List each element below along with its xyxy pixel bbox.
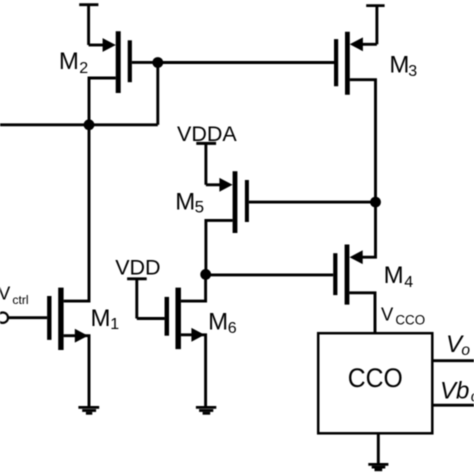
node B (M1 drain / M2 drain) bbox=[84, 119, 95, 130]
wire M4 gate to node C bbox=[206, 273, 334, 276]
svg-text:M: M bbox=[91, 305, 111, 332]
transistor M5 (PMOS) bbox=[206, 171, 247, 274]
svg-text:1: 1 bbox=[110, 316, 119, 333]
transistor M2 (PMOS) bbox=[89, 31, 158, 125]
node A (M2/M3 gate tie) bbox=[152, 57, 163, 68]
label Vo bbox=[446, 331, 470, 359]
ground symbol below M1 bbox=[78, 407, 99, 413]
label VCCO bbox=[381, 303, 425, 327]
svg-text:VDD: VDD bbox=[115, 255, 160, 279]
svg-text:5: 5 bbox=[195, 197, 204, 216]
wire M5 gate to node D bbox=[249, 201, 376, 204]
supply symbol (VDD bar) above M3 bbox=[366, 6, 384, 45]
label Vbo bbox=[440, 378, 474, 406]
transistor M3 (PMOS, mirrored) bbox=[336, 32, 377, 202]
svg-text:CCO: CCO bbox=[395, 313, 425, 328]
svg-text:V: V bbox=[381, 303, 394, 324]
svg-text:4: 4 bbox=[404, 274, 413, 291]
wire node A down to left rail bbox=[156, 63, 159, 125]
svg-text:V: V bbox=[0, 283, 11, 304]
label M6 bbox=[208, 309, 237, 338]
svg-text:o: o bbox=[461, 342, 470, 359]
wire output Vo bbox=[434, 359, 474, 362]
svg-text:M: M bbox=[384, 262, 404, 289]
svg-text:CCO: CCO bbox=[348, 363, 403, 393]
supply symbol (VDD bar) above M2 bbox=[79, 5, 98, 45]
supply symbol VDD bar (M6 gate) bbox=[127, 279, 147, 319]
transistor M6 (NMOS) bbox=[167, 274, 206, 407]
svg-text:2: 2 bbox=[79, 60, 88, 77]
wire output Vbo bbox=[434, 404, 474, 407]
svg-text:Vb: Vb bbox=[440, 378, 469, 405]
node C (M5 drain / M6 drain / M4 gate) bbox=[200, 269, 211, 280]
wire node A to M3 gate bbox=[158, 61, 334, 64]
supply symbol VDDA bar bbox=[196, 143, 216, 184]
wire VDD to M6 gate bbox=[137, 317, 165, 320]
svg-text:M: M bbox=[175, 188, 195, 215]
label M4 bbox=[384, 262, 414, 291]
label Vctrl bbox=[0, 283, 29, 308]
svg-text:M: M bbox=[59, 48, 79, 75]
ground symbol below M6 bbox=[196, 407, 216, 413]
input terminal circle (Vctrl) bbox=[0, 313, 8, 323]
svg-text:3: 3 bbox=[408, 63, 417, 80]
svg-text:M: M bbox=[208, 309, 228, 336]
label M1 bbox=[91, 305, 120, 333]
label M2 bbox=[59, 48, 88, 77]
wire Vctrl to M1 gate bbox=[8, 316, 47, 319]
ground symbol below CCO bbox=[368, 433, 388, 470]
transistor M1 (NMOS) bbox=[49, 125, 89, 407]
svg-text:ctrl: ctrl bbox=[12, 293, 28, 307]
svg-text:M: M bbox=[389, 51, 409, 78]
wire left rail bbox=[0, 123, 158, 126]
node D (M3 drain / M5 gate / M4 source) bbox=[370, 197, 381, 208]
label M5 bbox=[175, 188, 204, 216]
CCO block bbox=[318, 333, 432, 433]
svg-text:6: 6 bbox=[228, 320, 237, 337]
transistor M4 (PMOS, mirrored) bbox=[335, 202, 375, 332]
label M3 bbox=[389, 51, 417, 80]
